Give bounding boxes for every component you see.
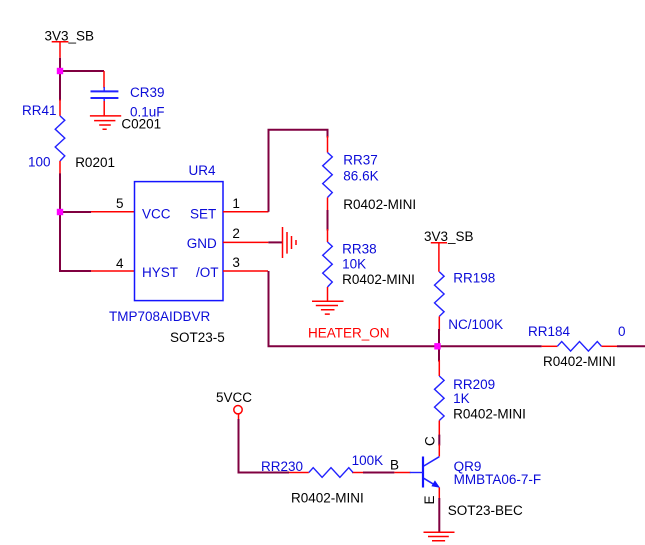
svg-text:HYST: HYST: [142, 265, 178, 280]
svg-text:5: 5: [116, 196, 124, 211]
svg-text:0: 0: [618, 324, 626, 339]
svg-text:SOT23-5: SOT23-5: [170, 330, 225, 345]
svg-text:R0201: R0201: [75, 155, 115, 170]
svg-text:MMBTA06-7-F: MMBTA06-7-F: [454, 472, 542, 487]
svg-text:R0402-MINI: R0402-MINI: [342, 272, 415, 287]
svg-text:HEATER_ON: HEATER_ON: [308, 326, 390, 341]
svg-text:10K: 10K: [342, 256, 366, 271]
svg-text:TMP708AIDBVR: TMP708AIDBVR: [109, 309, 211, 324]
svg-text:CR39: CR39: [130, 85, 165, 100]
svg-text:SET: SET: [190, 207, 216, 222]
svg-text:4: 4: [116, 256, 124, 271]
svg-text:C0201: C0201: [121, 116, 161, 131]
svg-text:RR230: RR230: [261, 459, 303, 474]
svg-text:RR38: RR38: [342, 242, 377, 257]
svg-text:RR198: RR198: [453, 271, 495, 286]
svg-text:R0402-MINI: R0402-MINI: [543, 354, 616, 369]
svg-text:C: C: [423, 436, 438, 446]
svg-text:1: 1: [232, 196, 240, 211]
svg-text:VCC: VCC: [142, 207, 171, 222]
svg-text:B: B: [390, 458, 399, 473]
svg-text:5VCC: 5VCC: [216, 390, 252, 405]
svg-text:3V3_SB: 3V3_SB: [424, 229, 474, 244]
svg-text:/OT: /OT: [196, 265, 219, 280]
svg-text:86.6K: 86.6K: [343, 169, 378, 184]
svg-text:UR4: UR4: [189, 163, 216, 178]
svg-text:SOT23-BEC: SOT23-BEC: [448, 503, 523, 518]
svg-text:3V3_SB: 3V3_SB: [45, 29, 95, 44]
svg-text:RR37: RR37: [343, 152, 378, 167]
svg-text:2: 2: [232, 226, 240, 241]
svg-text:100: 100: [28, 155, 51, 170]
svg-text:NC/100K: NC/100K: [448, 317, 503, 332]
svg-text:1K: 1K: [453, 391, 470, 406]
svg-text:RR41: RR41: [22, 103, 57, 118]
svg-text:E: E: [422, 495, 437, 504]
svg-text:R0402-MINI: R0402-MINI: [343, 197, 416, 212]
svg-text:100K: 100K: [352, 453, 384, 468]
svg-text:R0402-MINI: R0402-MINI: [291, 491, 364, 506]
svg-text:GND: GND: [187, 236, 217, 251]
svg-text:R0402-MINI: R0402-MINI: [453, 407, 526, 422]
svg-text:RR209: RR209: [453, 377, 495, 392]
svg-text:RR184: RR184: [528, 324, 571, 339]
svg-text:3: 3: [232, 255, 240, 270]
